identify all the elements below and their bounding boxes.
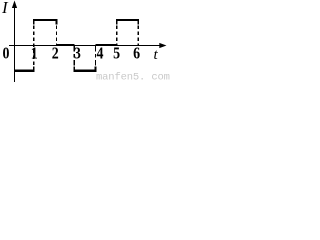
corner stub down at t=6 high [137, 19, 139, 25]
y-axis arrowhead [12, 1, 17, 9]
corner stub up at t=3 low [73, 67, 75, 72]
corner stub up at t=1 low [33, 67, 35, 72]
svg-text:0: 0 [3, 44, 10, 63]
svg-text:3: 3 [74, 44, 81, 63]
svg-text:manfen5. com: manfen5. com [96, 72, 170, 83]
dashed transition at t=6 [137, 26, 139, 46]
waveform high segment 5-6 [116, 19, 139, 21]
tick label 2 [52, 44, 59, 63]
tick label 5 [113, 44, 120, 63]
dashed transition at t=5 [116, 26, 118, 46]
dashed transition at t=3 [73, 46, 75, 66]
waveform low segment 0-1 [14, 70, 34, 72]
x-axis [9, 45, 161, 47]
tick label 4 [97, 44, 104, 63]
tick label 3 [74, 44, 81, 63]
waveform low segment 3-4 [73, 70, 96, 72]
tick label 6 [133, 44, 140, 63]
corner stub down at t=5 high [116, 19, 118, 25]
waveform high segment 1-2 [33, 19, 58, 21]
svg-text:5: 5 [113, 44, 120, 63]
svg-text:4: 4 [97, 44, 104, 63]
waveform zero segment 4-5 [96, 44, 117, 46]
svg-text:1: 1 [31, 44, 38, 63]
corner stub down at t=2 high [55, 19, 57, 25]
svg-text:2: 2 [52, 44, 59, 63]
corner stub down at t=1 high [33, 19, 35, 25]
dashed transition at t=2 [55, 26, 57, 46]
y-axis [14, 6, 16, 82]
dashed transition at t=4 [95, 46, 97, 66]
corner stub up at t=4 low [95, 67, 97, 72]
tick label 0 [3, 44, 10, 63]
x-axis arrowhead [159, 43, 166, 48]
waveform zero segment 2-3 [56, 44, 74, 46]
svg-text:6: 6 [133, 44, 140, 63]
dashed transition at t=1 [33, 26, 35, 68]
tick label 1 [31, 44, 38, 63]
